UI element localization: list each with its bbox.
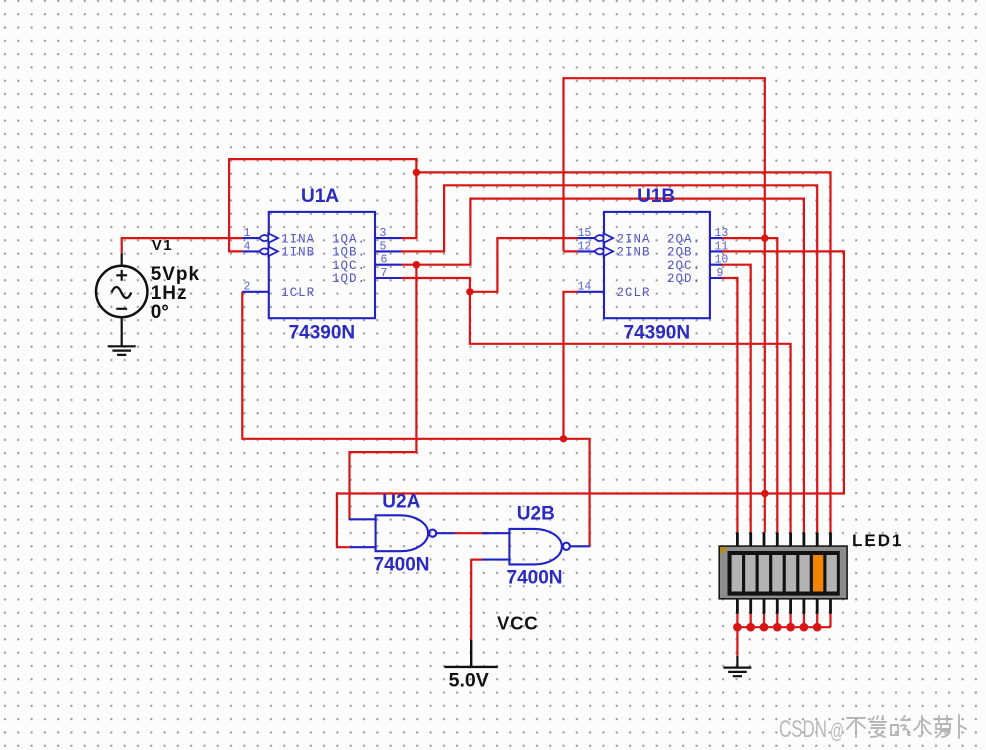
svg-text:@: @	[830, 720, 844, 743]
svg-text:5.0V: 5.0V	[449, 670, 489, 692]
svg-text:2QC.: 2QC.	[667, 259, 701, 273]
svg-text:1QB.: 1QB.	[332, 246, 366, 260]
svg-text:U2A: U2A	[382, 492, 420, 513]
svg-text:2QD.: 2QD.	[667, 272, 701, 286]
svg-text:5Vpk: 5Vpk	[151, 264, 200, 285]
svg-text:7400N: 7400N	[374, 555, 430, 576]
svg-text:2CLR: 2CLR	[617, 286, 651, 300]
svg-text:1Hz: 1Hz	[151, 283, 188, 304]
svg-text:6: 6	[381, 254, 388, 267]
svg-text:1QD.: 1QD.	[332, 272, 366, 286]
svg-text:CSDN: CSDN	[779, 716, 827, 743]
svg-text:1INA: 1INA	[281, 232, 315, 246]
svg-text:1: 1	[244, 227, 251, 240]
svg-text:U2B: U2B	[517, 504, 555, 525]
svg-text:74390N: 74390N	[289, 323, 356, 344]
svg-text:11: 11	[715, 240, 729, 253]
svg-text:14: 14	[578, 281, 592, 294]
svg-text:13: 13	[715, 227, 729, 240]
svg-text:4: 4	[244, 240, 251, 253]
svg-text:U1A: U1A	[301, 186, 339, 207]
svg-text:10: 10	[715, 254, 729, 267]
svg-text:2INA: 2INA	[617, 232, 651, 246]
svg-text:U1B: U1B	[637, 186, 675, 207]
svg-text:VCC: VCC	[497, 613, 538, 634]
svg-text:7400N: 7400N	[507, 568, 563, 589]
svg-text:1CLR: 1CLR	[281, 286, 315, 300]
svg-text:12: 12	[578, 240, 592, 253]
svg-text:2INB: 2INB	[617, 246, 651, 260]
svg-text:3: 3	[380, 227, 387, 240]
svg-text:7: 7	[381, 267, 388, 280]
svg-text:1INB: 1INB	[281, 246, 315, 260]
svg-text:15: 15	[578, 227, 592, 240]
svg-text:9: 9	[717, 267, 724, 280]
svg-text:1QA.: 1QA.	[332, 232, 366, 246]
svg-text:5: 5	[380, 240, 387, 253]
svg-text:LED1: LED1	[852, 531, 903, 550]
svg-text:1QC.: 1QC.	[332, 259, 366, 273]
svg-text:0°: 0°	[151, 302, 169, 323]
svg-text:74390N: 74390N	[624, 323, 691, 344]
svg-text:2QB.: 2QB.	[667, 246, 701, 260]
svg-text:2: 2	[244, 281, 251, 294]
svg-text:V1: V1	[152, 237, 173, 254]
svg-text:2QA.: 2QA.	[667, 232, 701, 246]
